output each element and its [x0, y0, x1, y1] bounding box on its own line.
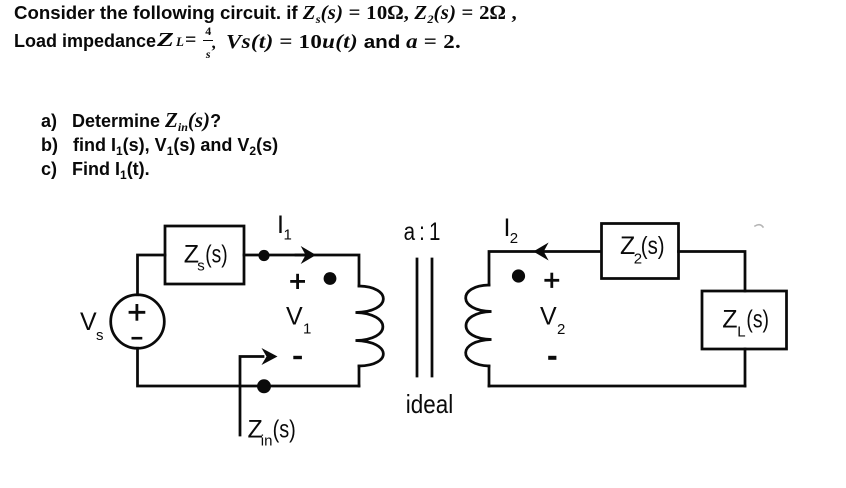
label V2: [540, 303, 565, 339]
wire: ZL bottom to bottom rail: [744, 349, 747, 386]
svg-text:V: V: [540, 303, 557, 331]
plus sign V2: [546, 274, 558, 286]
svg-text:Z: Z: [722, 305, 737, 333]
plus sign V1: [292, 275, 304, 287]
svg-text:(s): (s): [641, 232, 665, 260]
bottom wire left loop: [138, 348, 360, 386]
voltage source Vs: [111, 295, 165, 349]
svg-text:a : 1: a : 1: [404, 218, 441, 246]
svg-text:(s): (s): [205, 241, 227, 269]
bottom wire secondary loop: [489, 385, 745, 388]
svg-text:V: V: [80, 308, 97, 336]
svg-text:s: s: [197, 257, 205, 274]
fraction 4/s: [203, 25, 213, 60]
minus sign V1: [293, 356, 302, 359]
wire: Zs box to transformer primary top: [244, 255, 359, 286]
node dot (bottom): [257, 379, 271, 393]
node dot (top): [258, 250, 269, 261]
Zin probe arrow: [240, 357, 263, 436]
label I1: [277, 211, 292, 244]
question a: [41, 108, 221, 133]
label Vs: [80, 308, 104, 344]
label V1: [286, 303, 311, 338]
wire: Vs top to Zs box: [138, 255, 166, 295]
plus sign in source: [130, 305, 144, 319]
wire: secondary bottom: [488, 366, 491, 386]
svg-text:in: in: [261, 433, 273, 450]
secondary winding: [466, 285, 492, 366]
minus sign in source: [132, 337, 143, 340]
impedance box Zs(s): [165, 226, 244, 284]
problem statement line 1: [14, 2, 517, 25]
svg-text:(s): (s): [273, 415, 296, 443]
svg-text:2: 2: [510, 230, 518, 247]
label I2: [504, 214, 519, 247]
impedance box Z2(s): [602, 224, 679, 279]
problem statement line 2: [14, 31, 156, 52]
svg-text:L: L: [737, 324, 745, 341]
question b: [41, 135, 278, 156]
scan artifact: [755, 225, 763, 227]
transformer core: [416, 259, 419, 376]
question c: [41, 159, 150, 180]
wire: Z2 to right corner, down to ZL: [679, 252, 746, 292]
svg-text:2: 2: [557, 321, 565, 338]
current arrow I1: [296, 254, 305, 257]
polarity dot secondary: [512, 269, 525, 282]
minus sign V2: [548, 356, 556, 360]
svg-text:ideal: ideal: [406, 389, 453, 419]
polarity dot primary: [324, 272, 337, 285]
label Zin(s): [248, 415, 296, 449]
svg-text:1: 1: [284, 227, 292, 244]
primary winding: [356, 286, 384, 366]
load box ZL(s): [702, 291, 787, 349]
svg-text:s: s: [96, 327, 104, 344]
svg-text:(s): (s): [746, 305, 769, 333]
wire: primary bottom: [358, 366, 361, 386]
wire: secondary top: [489, 252, 601, 286]
current arrow I2 (points left): [533, 243, 548, 261]
svg-text:1: 1: [303, 321, 311, 338]
svg-text:V: V: [286, 303, 303, 331]
